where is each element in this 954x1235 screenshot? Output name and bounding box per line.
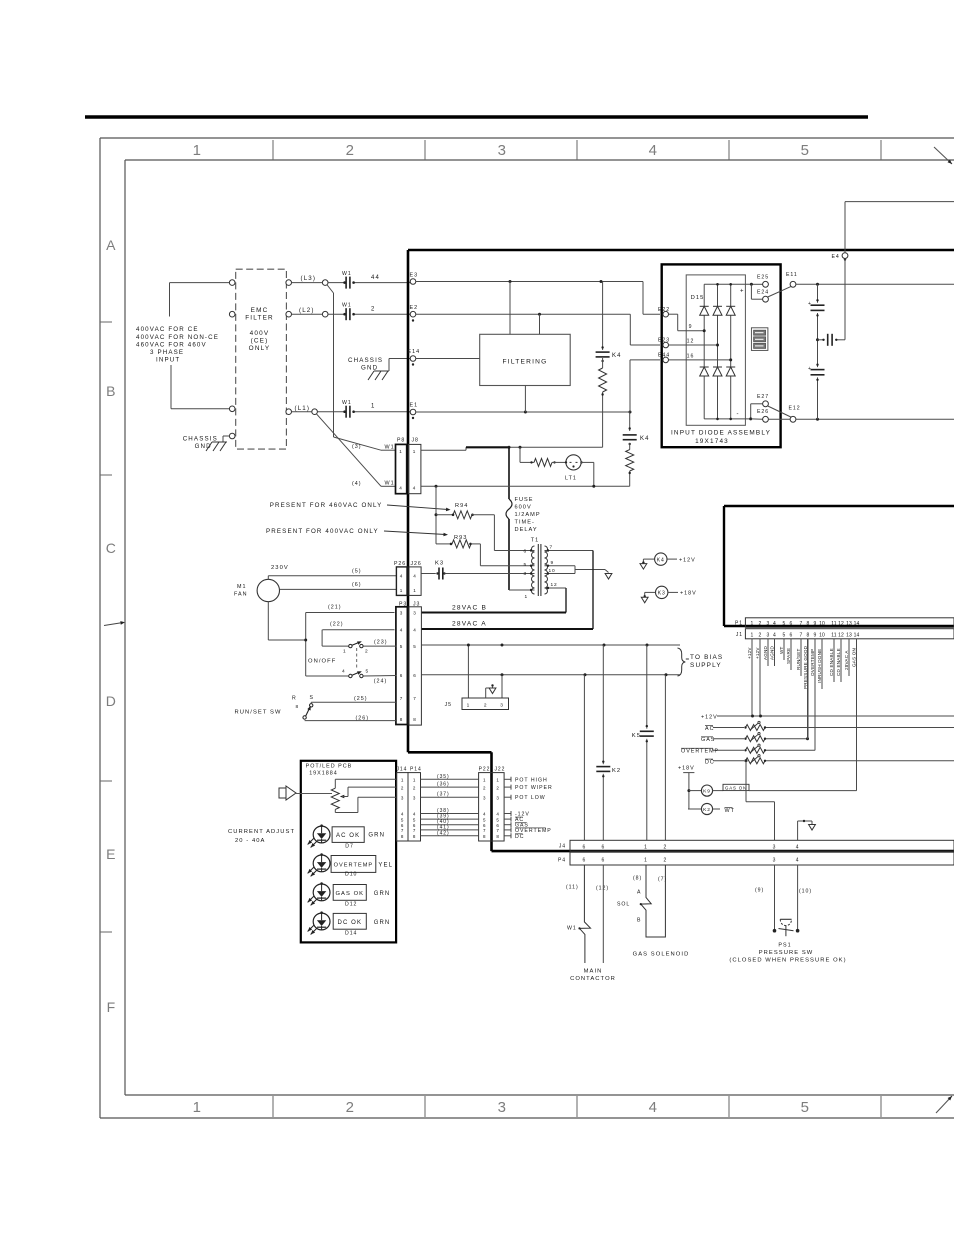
svg-text:5: 5: [400, 644, 403, 649]
svg-text:5: 5: [801, 1099, 810, 1116]
label (8): [633, 876, 642, 882]
connector P1 strip: [735, 618, 954, 628]
svg-text:2: 2: [484, 702, 488, 708]
capacitor K4 second: [623, 412, 650, 445]
resistor AC row: [705, 721, 954, 731]
chassis gnd E14 symbol: [368, 359, 410, 381]
svg-text:16: 16: [687, 353, 695, 359]
wire R94 to T1 pin6: [472, 515, 529, 551]
wire E24 link: [751, 284, 762, 299]
svg-text:4: 4: [413, 628, 416, 633]
svg-text:T1: T1: [531, 538, 540, 544]
svg-text:MAIN: MAIN: [584, 969, 603, 975]
svg-text:(6): (6): [352, 582, 362, 588]
wire L2 row: [292, 313, 411, 315]
svg-text:TIME-: TIME-: [515, 520, 535, 526]
bias supply PCB box: [724, 506, 954, 626]
svg-text:K4: K4: [612, 353, 622, 359]
svg-text:+: +: [808, 366, 812, 372]
svg-text:J4: J4: [559, 844, 566, 850]
svg-text:4: 4: [400, 628, 403, 633]
label (10): [799, 889, 812, 895]
EMC filter box: [236, 269, 287, 449]
net label -12V: [504, 811, 530, 818]
svg-text:8: 8: [413, 717, 416, 722]
terminal E4: [832, 253, 848, 260]
svg-text:13: 13: [846, 632, 852, 638]
connector J5: [445, 698, 509, 710]
svg-text:E27: E27: [757, 394, 769, 400]
capacitor C-bottom: [808, 364, 825, 381]
diode bridge inner box: [686, 275, 745, 425]
label (11): [566, 885, 579, 891]
label (22): [330, 622, 344, 628]
T1 center tap gnd: [575, 566, 612, 579]
connector P4 strip: [558, 852, 954, 865]
node +18V: [678, 766, 695, 810]
note present for 460vac: [270, 502, 451, 511]
svg-text:8: 8: [496, 834, 499, 839]
svg-text:4: 4: [649, 142, 658, 159]
svg-text:(21): (21): [328, 605, 342, 611]
svg-text:E3: E3: [410, 273, 419, 279]
svg-text:4: 4: [483, 812, 486, 817]
svg-text:FILTERING: FILTERING: [503, 359, 548, 366]
svg-text:J14: J14: [397, 767, 408, 773]
wire J1 pin 6 SPARE: [786, 639, 791, 670]
svg-text:SPARE: SPARE: [786, 648, 791, 664]
svg-text:28VAC B: 28VAC B: [452, 605, 487, 612]
filtering label: [503, 359, 548, 366]
svg-text:4: 4: [773, 621, 776, 627]
wire E4 up and right: [844, 202, 954, 261]
svg-text:INPUT DIODE ASSEMBLY: INPUT DIODE ASSEMBLY: [671, 430, 771, 437]
svg-text:14: 14: [854, 621, 860, 627]
svg-text:28VAC A: 28VAC A: [844, 650, 849, 670]
svg-text:DC: DC: [705, 759, 715, 765]
main PCB outline: [408, 250, 954, 851]
svg-text:7: 7: [401, 828, 404, 833]
svg-text:9: 9: [814, 632, 817, 638]
svg-text:6: 6: [601, 858, 605, 864]
wire E11 bus right: [796, 283, 954, 286]
node L2 label: [299, 307, 315, 314]
svg-text:4: 4: [796, 858, 800, 864]
svg-text:F: F: [107, 999, 116, 1015]
LED D10: [308, 853, 393, 877]
svg-text:6: 6: [523, 549, 527, 555]
terminal E25: [750, 275, 769, 288]
svg-text:1: 1: [751, 632, 754, 638]
net label GAS ON box: [713, 784, 749, 790]
svg-text:M1: M1: [237, 584, 247, 590]
svg-text:K3: K3: [658, 591, 666, 597]
bottom ruler band numbers 1-5: [193, 1096, 881, 1117]
wire 28VAC B: [422, 588, 566, 613]
wire J14-P22 row 6: [421, 819, 479, 825]
svg-text:GRN: GRN: [368, 832, 385, 838]
svg-text:POT WIPER: POT WIPER: [515, 785, 553, 791]
EMC terminal gnd: [229, 433, 235, 439]
svg-text:(23): (23): [374, 640, 388, 646]
svg-text:SOL: SOL: [617, 902, 630, 908]
svg-text:+18V: +18V: [680, 591, 697, 597]
T1 pin 7: [545, 545, 594, 552]
wire col 4 riser: [798, 820, 816, 841]
svg-text:2: 2: [664, 858, 668, 864]
wire R93 to T1 pin5: [471, 544, 529, 566]
connector J14/P14: [397, 767, 422, 842]
corner mark bottom-right: [936, 1096, 952, 1113]
svg-text:8: 8: [413, 834, 416, 839]
terminal E1: [410, 403, 419, 420]
svg-text:+: +: [808, 301, 812, 307]
svg-text:GAS ON: GAS ON: [851, 648, 856, 667]
LED D7: [308, 824, 385, 849]
note 3-phase input voltages: [136, 326, 219, 364]
svg-text:D7: D7: [345, 844, 354, 850]
svg-text:400VAC FOR CE: 400VAC FOR CE: [136, 326, 199, 333]
wire filtering bottom: [524, 386, 526, 413]
svg-text:E14: E14: [408, 349, 421, 355]
brace to bias supply: [678, 648, 689, 676]
svg-text:CURRENT ADJUST: CURRENT ADJUST: [228, 829, 295, 835]
wire E24-E11 diagonal: [768, 287, 791, 297]
left border arrow mark: [104, 621, 125, 625]
svg-text:6: 6: [583, 844, 587, 850]
svg-text:SUPPLY: SUPPLY: [690, 662, 722, 669]
svg-text:WT: WT: [779, 646, 784, 654]
wire E1 row: [416, 411, 632, 414]
svg-text:8: 8: [807, 632, 810, 638]
top ruler band numbers 1-5: [193, 140, 881, 160]
resistor DC row: [705, 755, 954, 766]
coil K9: [689, 785, 713, 796]
node L1 circle: [312, 409, 318, 415]
svg-text:D14: D14: [345, 931, 357, 937]
wire J14-P22 row 4: [421, 808, 479, 814]
wire bias row upper: [422, 644, 680, 647]
svg-text:3: 3: [773, 858, 777, 864]
connector J4 strip: [559, 840, 954, 851]
wire J1 pin 11 CD ENABLE: [829, 639, 834, 682]
wire J14-P22 row 2: [421, 782, 479, 788]
T1 pin 6: [523, 549, 534, 555]
capacitor C-top: [808, 299, 825, 317]
outer border frame: [100, 138, 954, 1118]
svg-text:GAS: GAS: [701, 737, 715, 743]
svg-text:7: 7: [413, 696, 416, 701]
svg-text:4: 4: [796, 844, 800, 850]
svg-text:7: 7: [800, 621, 803, 627]
label pressure sw: [759, 950, 814, 956]
svg-text:2: 2: [759, 621, 762, 627]
switch RUN/SET: [292, 695, 314, 719]
left ruler band letters A-F: [100, 237, 116, 1015]
svg-text:PRESENT FOR 400VAC ONLY: PRESENT FOR 400VAC ONLY: [266, 528, 379, 535]
label ON/OFF: [308, 659, 336, 665]
svg-text:1: 1: [193, 1099, 202, 1116]
resistor OVERTEMP row: [681, 744, 815, 754]
svg-text:4: 4: [649, 1099, 658, 1116]
svg-text:(5): (5): [352, 569, 362, 575]
coil K2 relay: [688, 803, 735, 814]
svg-text:1: 1: [343, 649, 347, 655]
svg-text:3: 3: [483, 795, 486, 800]
svg-text:5: 5: [413, 644, 416, 649]
connector P8/J8: [396, 438, 421, 494]
wire col 2 from bias row: [664, 675, 666, 841]
net label GAS: [504, 822, 529, 829]
svg-text:600V: 600V: [515, 505, 532, 511]
node L2 circle: [322, 311, 328, 317]
svg-text:K4: K4: [640, 436, 650, 442]
wire L1 row: [292, 411, 411, 413]
svg-text:PRESENT FOR 460VAC ONLY: PRESENT FOR 460VAC ONLY: [270, 502, 383, 509]
wire J1 pin 5 WT: [779, 639, 784, 660]
terminal E27: [757, 394, 769, 407]
wire E44 riser: [630, 360, 660, 412]
wire E44 tap 16: [669, 353, 733, 361]
svg-text:2: 2: [365, 649, 369, 655]
svg-text:4: 4: [773, 632, 776, 638]
svg-text:B: B: [637, 918, 641, 924]
capacitor K4 first: [596, 282, 622, 363]
P22 pin numbers: [483, 778, 500, 840]
wire pot wiper: [348, 787, 397, 796]
terminal E24: [757, 290, 769, 303]
svg-text:(37): (37): [437, 792, 450, 798]
svg-text:1: 1: [467, 702, 471, 708]
svg-text:12: 12: [687, 339, 695, 345]
label current adjust: [228, 829, 295, 844]
svg-text:9: 9: [814, 621, 817, 627]
svg-text:3: 3: [401, 795, 404, 800]
svg-text:POT HIGH: POT HIGH: [515, 777, 548, 783]
bridge + bus: [704, 283, 751, 295]
node L3 circle: [322, 280, 328, 286]
wire col 6a from bias row: [583, 675, 585, 841]
svg-text:4: 4: [399, 486, 402, 491]
capacitor bank rail: [816, 284, 819, 419]
wire J14-P22 row 1: [421, 774, 479, 780]
resistor LT1 series: [530, 458, 555, 466]
svg-text:K3: K3: [435, 561, 444, 567]
label pot/led pcb: [306, 764, 353, 777]
svg-text:K9: K9: [703, 789, 711, 795]
svg-text:3: 3: [773, 844, 777, 850]
label closed when pressure ok: [729, 958, 846, 964]
wire row 26: [305, 720, 396, 722]
chassis gnd EMC symbol: [206, 436, 229, 451]
svg-text:8: 8: [401, 834, 404, 839]
svg-text:CHASSIS: CHASSIS: [183, 436, 218, 443]
svg-text:DC OK: DC OK: [338, 920, 363, 926]
svg-text:GRN: GRN: [374, 920, 391, 926]
svg-text:(L1): (L1): [295, 405, 311, 412]
svg-text:AC: AC: [705, 726, 715, 732]
svg-text:5: 5: [366, 669, 370, 675]
svg-text:J8: J8: [412, 438, 419, 444]
svg-text:P26: P26: [394, 561, 406, 567]
svg-text:WT: WT: [725, 808, 735, 814]
wire contactor return: [602, 865, 604, 963]
wire J14-P22 row 3: [421, 792, 479, 798]
svg-text:3: 3: [767, 632, 770, 638]
wire input rail bottom: [171, 365, 229, 409]
P4 pin numbers: [583, 858, 800, 864]
svg-text:A: A: [106, 237, 116, 253]
part number block: [751, 328, 768, 351]
svg-text:1: 1: [413, 778, 416, 783]
svg-text:7: 7: [483, 828, 486, 833]
svg-text:4: 4: [413, 574, 416, 579]
svg-text:28VAC A: 28VAC A: [452, 621, 487, 628]
svg-text:C: C: [106, 540, 116, 556]
svg-text:1: 1: [524, 594, 528, 600]
svg-text:GAS OK: GAS OK: [335, 891, 364, 897]
svg-text:5: 5: [401, 817, 404, 822]
svg-text:19X1884: 19X1884: [309, 771, 338, 777]
svg-text:11: 11: [831, 621, 837, 627]
net label AC: [504, 817, 524, 824]
svg-text:5: 5: [783, 632, 786, 638]
svg-text:W1: W1: [567, 926, 577, 932]
svg-text:(3): (3): [352, 444, 362, 450]
svg-text:E1: E1: [410, 403, 419, 409]
terminal E26: [751, 409, 769, 422]
svg-text:9: 9: [551, 560, 555, 566]
svg-text:+12V: +12V: [679, 557, 696, 563]
wire fan feed rail: [268, 602, 322, 676]
label (21): [328, 605, 342, 611]
fuse F1: [506, 447, 512, 590]
T1 pin 9: [545, 560, 576, 567]
EMC terminal out L3: [286, 280, 292, 286]
svg-text:(24): (24): [374, 679, 388, 685]
svg-text:K4: K4: [657, 557, 665, 563]
svg-text:1/2AMP: 1/2AMP: [515, 512, 541, 518]
svg-text:2: 2: [664, 844, 668, 850]
svg-text:3: 3: [500, 702, 504, 708]
svg-text:DC: DC: [515, 834, 524, 840]
wire E14 row: [416, 358, 480, 360]
svg-text:TO BIAS: TO BIAS: [690, 654, 723, 661]
jumper W1 row L1: [342, 400, 355, 418]
terminal E14: [408, 349, 421, 366]
svg-text:D10: D10: [345, 872, 357, 878]
T1 pin 1: [509, 589, 535, 600]
filtering block: [480, 334, 571, 385]
svg-text:INPUT: INPUT: [156, 357, 180, 364]
connector P3/J3: [396, 602, 422, 726]
resistor GAS row: [701, 733, 809, 744]
wire L1 to P8 pin4: [317, 414, 396, 486]
svg-text:6: 6: [790, 621, 793, 627]
wire J1 pin 7 RUN/SET: [796, 639, 801, 676]
EMC terminal in L3: [229, 280, 235, 286]
label (24): [374, 679, 388, 685]
svg-text:E4: E4: [832, 254, 840, 260]
label (3) W1: [352, 444, 395, 451]
svg-text:W1: W1: [342, 400, 352, 406]
svg-text:7: 7: [400, 696, 403, 701]
wire 28VAC A: [422, 551, 593, 630]
terminal E2: [410, 305, 419, 322]
capacitor K2 column: [596, 645, 621, 840]
svg-text:R94: R94: [455, 503, 468, 509]
svg-text:400V: 400V: [250, 330, 270, 337]
svg-text:P14: P14: [410, 767, 422, 773]
svg-text:K2: K2: [612, 768, 621, 774]
svg-text:6: 6: [790, 632, 793, 638]
wire GAS to J1 pin8: [807, 639, 809, 739]
svg-text:3: 3: [413, 611, 416, 616]
svg-text:W1: W1: [385, 481, 395, 487]
wire LT1 branch: [520, 447, 534, 462]
label input diode assembly: [671, 430, 771, 437]
capacitor C-mid horizontal: [818, 258, 846, 345]
svg-text:10: 10: [819, 632, 825, 638]
svg-text:J1: J1: [736, 632, 743, 638]
svg-text:2: 2: [496, 785, 499, 790]
svg-text:1: 1: [401, 778, 404, 783]
svg-text:(L3): (L3): [301, 275, 317, 282]
svg-text:GND: GND: [361, 365, 378, 372]
svg-text:R93: R93: [454, 535, 467, 541]
bridge column 3: [726, 284, 735, 419]
wire P8 pin4 row: [421, 485, 630, 488]
terminal E44: [658, 353, 670, 363]
svg-text:+: +: [740, 289, 745, 295]
switch ON/OFF pole A: [322, 641, 396, 654]
wire J14-P22 row 5: [421, 814, 479, 820]
svg-text:14: 14: [854, 632, 860, 638]
svg-text:CONTACTOR: CONTACTOR: [570, 976, 616, 982]
svg-text:INRUSH DONE: INRUSH DONE: [817, 649, 822, 683]
svg-text:P1: P1: [735, 621, 743, 627]
svg-text:(CLOSED WHEN PRESSURE OK): (CLOSED WHEN PRESSURE OK): [729, 958, 846, 964]
wire J1 pin 10 INRUSH DONE: [817, 639, 822, 689]
wire fan top row 5: [268, 569, 396, 580]
lamp LT1: [552, 455, 583, 482]
svg-text:13: 13: [846, 621, 852, 627]
svg-text:W1: W1: [385, 445, 395, 451]
coil K4 +12V: [640, 553, 696, 569]
svg-text:B: B: [106, 383, 116, 399]
chassis gnd E14 text: [348, 357, 383, 372]
capacitor K5 column: [632, 645, 654, 840]
svg-text:CD ENABLE: CD ENABLE: [836, 648, 841, 676]
wire J14-P22 row 7: [421, 824, 479, 830]
wire J1 pin 14 GAS ON: [851, 639, 856, 791]
net label POT LOW: [504, 795, 545, 802]
svg-text:P22: P22: [479, 767, 491, 773]
svg-text:2: 2: [413, 785, 416, 790]
wire pot bottom: [335, 797, 396, 812]
svg-text:6: 6: [400, 673, 403, 678]
label (4) W1: [352, 481, 395, 487]
svg-text:6: 6: [583, 858, 587, 864]
svg-text:AC OK: AC OK: [336, 833, 360, 839]
svg-text:4: 4: [413, 486, 416, 491]
terminal E12: [789, 406, 801, 423]
svg-text:3: 3: [767, 621, 770, 627]
svg-text:460VAC FOR 460V: 460VAC FOR 460V: [136, 342, 207, 349]
svg-text:ON/OFF: ON/OFF: [308, 659, 336, 665]
svg-text:+12V: +12V: [755, 647, 760, 659]
label 230V: [271, 565, 289, 571]
